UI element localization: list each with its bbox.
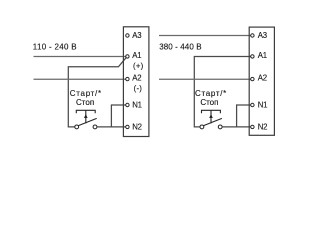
terminal N2 (block 2) <box>251 125 254 128</box>
svg-text:N1: N1 <box>258 101 268 110</box>
wire: N1 branch <box>111 105 125 127</box>
terminal A1 (block 1) <box>126 55 129 58</box>
wire L1: supply line to A1 <box>34 56 126 58</box>
wire: button to N2 (right) <box>222 126 251 128</box>
push-button SB2 arrow <box>209 114 213 118</box>
svg-text:110 - 240 В: 110 - 240 В <box>33 42 77 51</box>
terminal A2 (block 2) <box>251 77 254 80</box>
push-button SB1 lever <box>78 118 96 125</box>
wire: A1 to button feed <box>194 57 251 127</box>
svg-text:Стоп: Стоп <box>76 98 94 107</box>
svg-text:N2: N2 <box>258 122 268 131</box>
push-button SB1 arrow <box>84 114 88 118</box>
push-button SB2 right contact <box>218 125 222 129</box>
push-button SB1 left contact <box>75 125 79 129</box>
push-button SB2 stem <box>210 110 212 123</box>
wire: button to N2 <box>97 126 126 128</box>
terminal N1 (block 2) <box>251 103 254 106</box>
svg-text:A1: A1 <box>258 51 267 60</box>
svg-text:Стоп: Стоп <box>200 98 218 107</box>
terminal A3 (block 2) <box>251 34 254 37</box>
svg-text:A2: A2 <box>258 74 267 83</box>
wire R1: supply line to A3 <box>159 35 251 37</box>
svg-text:N2: N2 <box>132 122 142 131</box>
svg-text:N1: N1 <box>132 101 142 110</box>
push-button SB1 stem <box>85 110 87 123</box>
svg-text:A2: A2 <box>132 74 141 83</box>
svg-text:(-): (-) <box>134 84 143 93</box>
terminal N2 (block 1) <box>126 125 129 128</box>
svg-text:A1: A1 <box>132 51 141 60</box>
terminal A1 (block 2) <box>251 55 254 58</box>
terminal A2 (block 1) <box>126 77 129 80</box>
svg-text:Старт/*: Старт/* <box>70 89 102 98</box>
terminal block 2 <box>249 27 274 135</box>
push-button SB1 bar <box>76 110 95 113</box>
terminal N1 (block 1) <box>126 103 129 106</box>
terminal block 1 <box>123 27 148 137</box>
svg-text:A3: A3 <box>132 31 141 40</box>
svg-text:380 - 440 В: 380 - 440 В <box>159 42 201 51</box>
push-button SB2 bar <box>202 110 221 113</box>
svg-text:Старт/*: Старт/* <box>195 89 227 98</box>
wire: switch feed from A1 (step down to button) <box>68 58 126 127</box>
wire R2: supply line to A2 <box>159 78 251 80</box>
push-button SB2 lever <box>204 118 222 125</box>
terminal A3 (block 1) <box>126 34 129 37</box>
svg-text:A3: A3 <box>258 31 267 40</box>
push-button SB1 right contact <box>93 125 97 129</box>
push-button SB2 left contact <box>200 125 204 129</box>
svg-text:(+): (+) <box>133 62 144 71</box>
wire: N1 branch (right) <box>237 105 251 127</box>
wire L2: supply line to A2 <box>34 78 126 80</box>
